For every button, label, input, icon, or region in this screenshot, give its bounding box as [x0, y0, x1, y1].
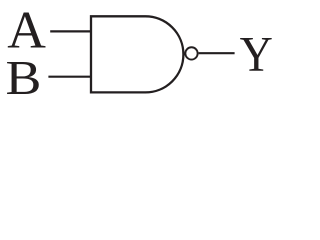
wire output Y — [199, 52, 235, 54]
svg-text:B: B — [6, 51, 42, 105]
wire input B — [48, 76, 92, 78]
wire input A — [50, 30, 92, 32]
nand gate U1 body — [91, 16, 183, 92]
svg-text:Y: Y — [240, 28, 273, 82]
inverter bubble — [185, 47, 197, 59]
